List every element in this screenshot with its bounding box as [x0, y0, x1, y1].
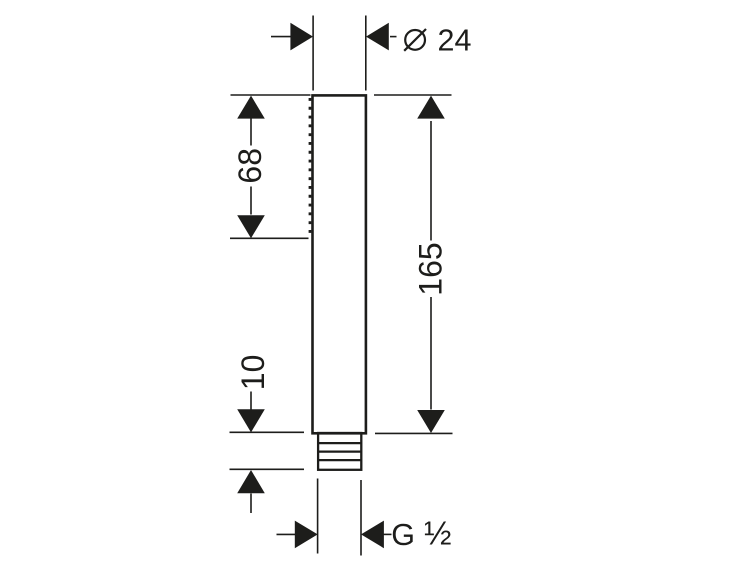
68 dim line lower segment — [250, 187, 252, 215]
diameter dim right tail line — [390, 36, 397, 38]
165 dim line upper segment — [430, 121, 432, 241]
10 dim leader line lower — [250, 494, 252, 514]
10 dim leader line upper — [250, 392, 252, 410]
svg-text:G: G — [391, 518, 415, 552]
extension line right of diameter dim — [365, 16, 367, 91]
svg-text:10: 10 — [235, 355, 271, 391]
thread line 1 — [318, 442, 361, 444]
svg-text:½: ½ — [424, 515, 452, 552]
165 dim top extension line — [374, 94, 452, 96]
thread line 2 — [318, 450, 361, 452]
68 dim up arrow — [237, 96, 265, 119]
svg-text:24: 24 — [438, 24, 472, 58]
10 dim lower extension line (thread bottom level) — [230, 468, 305, 470]
10 dim down arrow (outside, points to body bottom line) — [237, 409, 265, 432]
G1/2 right tail line — [384, 533, 392, 535]
G1/2 left extension line — [317, 479, 319, 554]
G1/2 left tail line — [277, 533, 297, 535]
shower handle body outline — [313, 95, 366, 433]
68 dim line upper segment — [250, 118, 252, 146]
diameter dim right arrow — [366, 23, 389, 51]
svg-text:165: 165 — [413, 242, 449, 295]
G1/2 right extension line — [360, 480, 362, 556]
diameter dim left tail line — [271, 36, 292, 38]
165 dim down arrow — [417, 410, 445, 433]
extension line left of diameter dim — [312, 16, 314, 91]
G1/2 left arrow — [295, 521, 318, 549]
68 dim bottom extension line — [230, 237, 309, 239]
label diameter 24 — [404, 29, 426, 51]
68 dim down arrow — [237, 215, 265, 238]
diameter dim left arrow — [290, 23, 313, 51]
165 dim bottom extension line — [375, 432, 453, 434]
10 dim up arrow (outside, points to thread bottom line) — [237, 470, 265, 493]
10 dim upper extension line (body bottom level) — [230, 431, 305, 433]
68 dim top extension line — [231, 94, 311, 96]
G1/2 threaded connector outline — [318, 433, 361, 470]
thread line 3 — [318, 459, 361, 461]
spray face nozzle texture (dotted left edge) — [309, 98, 312, 237]
G1/2 right arrow — [361, 521, 384, 549]
165 dim up arrow — [417, 96, 445, 119]
svg-text:68: 68 — [232, 148, 268, 184]
165 dim line lower segment — [430, 297, 432, 410]
